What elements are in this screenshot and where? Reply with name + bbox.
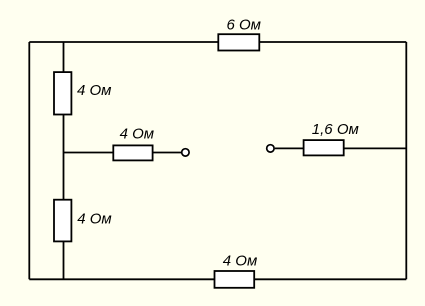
resistor 4 Om (left lower): [54, 200, 71, 242]
wire: right outer vertical: [405, 42, 407, 279]
terminal node b (right branch, open circle): [267, 145, 274, 152]
svg-text:4 Ом: 4 Ом: [77, 82, 111, 99]
resistor 1,6 Om (right branch): [304, 140, 344, 155]
wire: right branch horizontal: [275, 147, 407, 149]
resistor 4 Om (middle branch): [113, 145, 152, 160]
wire: top horizontal net: [29, 41, 406, 43]
resistor 4 Om (left upper): [54, 72, 71, 114]
wire: middle branch horizontal: [64, 152, 182, 154]
resistor 4 Om (bottom): [215, 271, 255, 288]
terminal node a (middle branch, open circle): [182, 149, 189, 156]
svg-text:4 Ом: 4 Ом: [120, 126, 154, 143]
svg-text:4 Ом: 4 Ом: [223, 253, 257, 270]
wire: bottom horizontal net: [29, 278, 406, 280]
wire: inner left branch vertical: [63, 42, 65, 279]
svg-text:6 Ом: 6 Ом: [227, 16, 261, 33]
wire: left outer vertical: [28, 42, 30, 279]
svg-text:1,6 Ом: 1,6 Ом: [312, 121, 359, 138]
svg-text:4 Ом: 4 Ом: [77, 211, 111, 228]
resistor 6 Om (top): [218, 34, 259, 50]
